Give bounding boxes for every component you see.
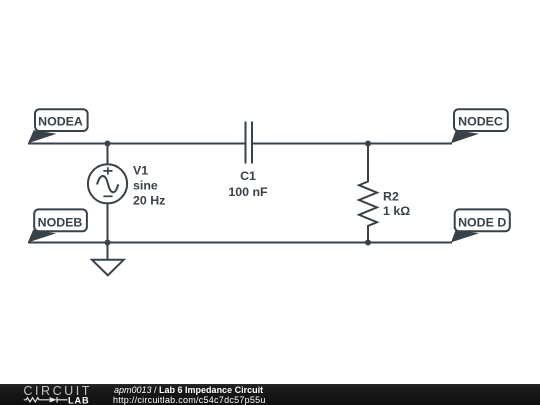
- svg-text:1 kΩ: 1 kΩ: [383, 204, 410, 218]
- svg-text:V1: V1: [133, 164, 148, 178]
- svg-text:LAB: LAB: [68, 395, 90, 405]
- footer text line 2: [113, 395, 266, 405]
- node flag NODEA: [28, 109, 88, 143]
- node flag NODEC: [451, 109, 508, 143]
- node flag NODEB: [28, 209, 87, 242]
- ground: [92, 243, 124, 276]
- junction: R2 top node: [365, 141, 371, 147]
- wire: bottom net from NODEB to NODE D: [28, 242, 452, 244]
- footer text line 1: [114, 385, 263, 395]
- junction: V1 top node: [105, 141, 111, 147]
- junction: V1/ground bottom node: [105, 240, 111, 246]
- CircuitLab logo: [0, 384, 100, 405]
- capacitor C1: [246, 122, 253, 164]
- svg-text:R2: R2: [383, 190, 399, 204]
- wire: V1 top lead: [107, 144, 109, 165]
- wire: top net from NODEA to C1 left plate: [28, 143, 245, 145]
- svg-text:C1: C1: [240, 169, 256, 183]
- resistor R2: [359, 144, 377, 243]
- label R2 value: [383, 190, 410, 219]
- svg-text:100 nF: 100 nF: [228, 185, 268, 199]
- svg-text:NODEB: NODEB: [38, 215, 83, 229]
- voltage source V1: [88, 164, 127, 203]
- svg-text:sine: sine: [133, 179, 158, 193]
- svg-text:NODEC: NODEC: [458, 115, 503, 129]
- junction: R2 bottom node: [365, 240, 371, 246]
- svg-text:NODE D: NODE D: [458, 215, 506, 229]
- wire: V1 bottom lead: [107, 203, 109, 242]
- wire: top net from C1 right plate to NODEC: [253, 143, 452, 145]
- label C1 value: [228, 169, 268, 199]
- svg-text:NODEA: NODEA: [38, 115, 83, 129]
- svg-text:20 Hz: 20 Hz: [133, 194, 165, 208]
- footer bar: [0, 384, 540, 405]
- label V1 value: [133, 164, 165, 208]
- node flag NODE D: [451, 209, 510, 242]
